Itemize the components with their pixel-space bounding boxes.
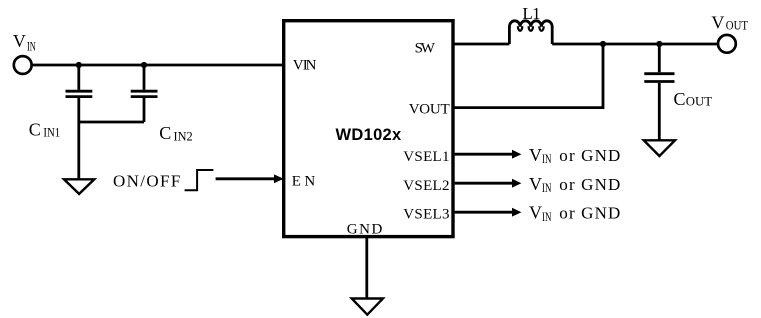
svg-text:or GND: or GND — [559, 203, 620, 222]
label CIN2 — [159, 123, 192, 143]
terminal VIN — [14, 56, 32, 74]
node junction at CIN2 — [141, 62, 147, 68]
svg-text:GND: GND — [347, 221, 383, 237]
capacitor COUT — [644, 44, 674, 140]
ground under CIN1 — [64, 179, 94, 194]
wire U1.GND to ground — [365, 238, 368, 299]
svg-text:V IN: V IN — [293, 58, 317, 74]
label VSEL3 option VIN or GND — [529, 202, 620, 223]
label VIN terminal — [13, 31, 36, 54]
IC U1 WD102x body — [284, 21, 453, 237]
svg-text:C: C — [674, 89, 687, 109]
capacitor CIN1 — [66, 65, 93, 180]
svg-text:E N: E N — [292, 174, 316, 190]
signal edge symbol for ON/OFF — [185, 170, 214, 190]
svg-text:V: V — [711, 13, 725, 33]
svg-text:L 1: L 1 — [522, 4, 540, 23]
svg-text:VOUT: VOUT — [409, 102, 450, 118]
label VSEL1 option VIN or GND — [529, 145, 620, 166]
svg-text:WD102x: WD102x — [336, 126, 403, 144]
svg-text:IN: IN — [542, 152, 551, 166]
label COUT — [674, 89, 713, 109]
svg-text:OUT: OUT — [726, 18, 749, 32]
svg-text:OUT: OUT — [686, 95, 713, 109]
svg-text:VSEL3: VSEL3 — [403, 206, 449, 222]
svg-text:IN: IN — [27, 40, 36, 54]
wire U1.VOUT feedback to SW node — [453, 44, 603, 108]
svg-text:C: C — [29, 120, 42, 140]
node junction SW/VOUT feedback — [600, 41, 606, 47]
svg-text:IN1: IN1 — [43, 126, 60, 140]
wire L1 to VOUT terminal — [552, 43, 718, 46]
inductor L1 — [509, 21, 552, 44]
terminal VOUT — [718, 35, 736, 53]
capacitor CIN2 — [131, 65, 158, 122]
label VOUT terminal — [711, 13, 748, 33]
svg-text:V: V — [529, 202, 543, 222]
svg-text:IN2: IN2 — [174, 129, 193, 143]
node junction COUT — [656, 41, 662, 47]
svg-text:ON/OFF: ON/OFF — [113, 171, 180, 190]
wire CIN2 bottom to CIN1 leg — [79, 121, 144, 124]
svg-text:VSEL2: VSEL2 — [403, 178, 449, 194]
svg-text:or GND: or GND — [559, 175, 620, 194]
svg-text:VSEL1: VSEL1 — [403, 149, 449, 165]
svg-text:or GND: or GND — [559, 146, 620, 165]
wire VIN terminal to U1.VIN — [32, 64, 285, 67]
svg-text:SW: SW — [415, 41, 436, 57]
wire U1.SW to L1 — [453, 43, 509, 46]
svg-text:V: V — [529, 145, 543, 165]
svg-text:IN: IN — [542, 181, 551, 195]
wire VSEL2 arrow — [455, 179, 522, 188]
ground under U1.GND — [352, 299, 383, 315]
svg-text:V: V — [13, 31, 27, 51]
svg-text:IN: IN — [542, 210, 551, 224]
node junction at CIN1 — [76, 62, 82, 68]
wire VSEL1 arrow — [455, 150, 522, 159]
ground under COUT — [644, 140, 675, 156]
wire VSEL3 arrow — [455, 208, 522, 217]
svg-text:V: V — [529, 174, 543, 194]
label CIN1 — [29, 120, 60, 140]
wire EN arrow — [216, 174, 284, 183]
label VSEL2 option VIN or GND — [529, 174, 620, 195]
svg-text:C: C — [159, 123, 172, 143]
